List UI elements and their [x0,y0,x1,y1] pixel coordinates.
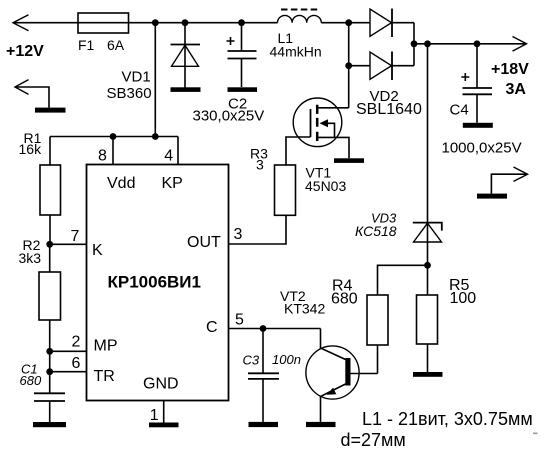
node R4 tap [424,262,431,269]
wire R3 to OUT [229,215,287,244]
label R3 3 [250,146,268,173]
node output join [411,40,418,47]
arrow +12V input [13,15,29,31]
label R4 680 [331,278,358,308]
pin number 4 [164,148,173,165]
pin label C [206,319,218,336]
node VD2 anode bottom [345,62,352,69]
node pin2 junction [46,348,53,355]
node C2 tap [238,19,245,26]
label R5 100 [449,277,476,307]
svg-text:100: 100 [450,290,477,307]
svg-text:КС518: КС518 [355,223,397,239]
node pin7 junction [46,241,53,248]
pin number 6 [72,355,81,372]
diode VD2 upper [370,9,414,38]
wire pin 7 [50,243,87,245]
pin 1 stub [163,401,165,423]
wire top +12V rail [13,22,278,24]
svg-text:3: 3 [234,226,243,243]
svg-text:1000,0x25V: 1000,0x25V [442,140,522,157]
svg-text:6A: 6A [107,37,125,53]
wire L1 to VD2 [321,22,370,24]
svg-text:SB360: SB360 [107,85,152,102]
wire Vdd/KP top [50,136,178,138]
svg-text:+12V: +12V [6,43,44,60]
label VT1 45N03 [305,165,346,195]
svg-text:KP: KP [162,175,183,192]
ground pin1 [149,423,179,428]
wire pin 5 [229,328,321,330]
svg-text:L1 - 21вит, 3х0.75мм: L1 - 21вит, 3х0.75мм [362,409,533,429]
label R1 16k [19,130,43,157]
label VD2 SBL1640 [356,88,422,118]
svg-text:F1: F1 [78,37,95,53]
ground C4 [463,123,493,128]
zener VD3 [413,44,442,295]
speck artifact [533,433,538,435]
label VD1 SB360 [107,69,152,102]
capacitor C4 [461,44,492,123]
svg-text:1: 1 [150,407,159,424]
pin number 8 [98,148,107,165]
label L1 44mkHn [270,30,322,59]
svg-text:680: 680 [331,291,358,308]
svg-text:4: 4 [164,148,173,165]
capacitor C3 [248,329,279,422]
pin number 5 [235,312,244,329]
label C2 330,0x25V [193,95,265,124]
label KP1006VI1 [108,273,201,292]
label VD3 KC518 [355,210,397,239]
svg-text:C: C [206,319,218,336]
ground input [35,108,66,113]
svg-text:КР1006ВИ1: КР1006ВИ1 [108,273,201,292]
svg-text:SBL1640: SBL1640 [356,101,422,118]
label C1 680 [20,362,42,388]
svg-text:680: 680 [20,373,42,388]
svg-text:3A: 3A [506,81,527,98]
pin label Vdd [107,175,135,192]
ground VD1 [171,87,201,92]
node fuse-out junction [152,19,159,26]
svg-text:3k3: 3k3 [19,250,42,266]
label C4 1000,0x25V [442,102,522,157]
svg-text:2: 2 [72,334,81,351]
ground C2 [228,87,258,92]
svg-text:45N03: 45N03 [305,178,346,194]
resistor R2 [39,244,61,392]
wire +18V rail [414,43,527,45]
svg-text:K: K [92,242,103,259]
node VD3 tap [424,40,431,47]
wire R4 branch [378,265,428,295]
pin label OUT [187,234,221,251]
wire pin 2 [50,350,87,352]
pin label TR [94,368,115,385]
node C4 tap [474,40,481,47]
pin number 1 [150,407,159,424]
transistor VT1 [286,98,349,165]
wire VD2 cathode join [413,23,415,66]
pin number 2 [72,334,81,351]
node pin8 junction [110,133,117,140]
wire pin 6 [50,371,87,373]
pin number 3 [234,226,243,243]
label +12V [6,43,44,60]
pin 8 stub [112,137,114,165]
diode VD1 [171,23,201,88]
capacitor C1 [34,393,65,422]
ground C1 [33,422,66,427]
IC U1 KP1006VI1 [87,165,229,401]
svg-text:d=27мм: d=27мм [341,430,406,450]
label C3 100n [243,352,301,368]
label L1 winding note [362,409,533,429]
label d=27mm [341,430,406,450]
svg-text:7: 7 [71,228,80,245]
inductor L1 [278,10,322,23]
resistor R3 [275,165,296,215]
svg-text:C4: C4 [450,102,469,119]
svg-text:8: 8 [98,148,107,165]
pin label KP [162,175,183,192]
svg-text:TR: TR [94,368,115,385]
wire Vdd feed vertical [154,23,156,137]
pin label GND [143,376,179,393]
label VT2 KT342 [280,288,325,316]
arrow ground input [15,80,49,108]
node VD2 anode top [345,19,352,26]
capacitor C2 [227,23,257,87]
transistor VT2 [306,329,378,422]
svg-text:VD1: VD1 [122,69,151,86]
ground output [477,194,507,199]
label +18V 3A [491,61,529,98]
label R2 3k3 [19,237,42,266]
svg-text:100n: 100n [272,352,301,367]
svg-text:6: 6 [72,355,81,372]
arrow ground output [491,167,527,194]
svg-text:OUT: OUT [187,234,221,251]
svg-text:+18V: +18V [491,61,529,78]
resistor R4 [367,295,388,374]
svg-text:C3: C3 [243,353,260,368]
wire drain column [348,23,350,108]
svg-text:5: 5 [235,312,244,329]
ground R5 [413,372,443,377]
ground VT1 source [334,158,364,163]
pin number 7 [71,228,80,245]
resistor R1 [40,137,61,245]
fuse F1 [78,13,129,33]
arrow +18V output [513,37,527,52]
svg-text:MP: MP [94,338,118,355]
pin 4 stub [177,137,179,165]
svg-text:GND: GND [143,376,179,393]
node VD1 tap [182,19,189,26]
svg-text:3: 3 [256,156,264,172]
svg-text:KT342: KT342 [284,300,325,316]
ground VT2 [306,422,336,427]
svg-text:44mkHn: 44mkHn [270,43,322,59]
resistor R5 [417,295,438,372]
diode VD2 lower [349,52,414,81]
ground C3 [249,422,279,427]
svg-text:Vdd: Vdd [107,175,135,192]
label F1 6A [78,37,125,53]
svg-text:16k: 16k [19,141,43,157]
node pin6 junction [46,368,53,375]
pin label MP [94,338,118,355]
pin label K [92,242,103,259]
node vdd feed junction [152,133,159,140]
node C3 tap [260,325,267,332]
svg-text:330,0x25V: 330,0x25V [193,107,265,124]
